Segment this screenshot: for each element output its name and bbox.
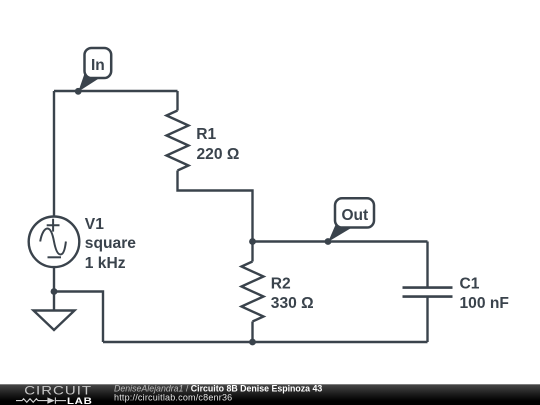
svg-text:220 Ω: 220 Ω bbox=[197, 146, 240, 163]
svg-text:square: square bbox=[85, 235, 136, 252]
junction dot ground node bbox=[51, 288, 58, 295]
junction dot mid node (R1/R2/Out rail) bbox=[249, 238, 256, 245]
node Out junction dot bbox=[325, 238, 332, 245]
node Out flag bbox=[328, 198, 374, 241]
CircuitLab logo diode bbox=[47, 397, 54, 403]
wire R1 top lead bbox=[176, 91, 178, 111]
wire C1 bottom lead bbox=[426, 297, 428, 342]
junction dot R2 bottom bbox=[249, 339, 256, 346]
wire R2 top lead bbox=[251, 242, 253, 262]
node In junction dot bbox=[75, 88, 82, 95]
svg-text:100 nF: 100 nF bbox=[460, 295, 509, 312]
svg-text:http://circuitlab.com/c8enr36: http://circuitlab.com/c8enr36 bbox=[114, 392, 232, 402]
svg-text:1 kHz: 1 kHz bbox=[85, 255, 126, 272]
svg-text:R2: R2 bbox=[271, 275, 291, 292]
wire ground node to bottom rail bbox=[54, 292, 103, 343]
node In flag bbox=[78, 48, 111, 92]
wire left rail V1 top bbox=[53, 91, 55, 217]
svg-text:In: In bbox=[91, 57, 105, 74]
label R2 330 ohm bbox=[271, 275, 314, 312]
wire C1 top lead bbox=[426, 242, 428, 288]
svg-text:C1: C1 bbox=[460, 275, 480, 292]
ground bbox=[34, 311, 75, 331]
label V1 square 1 kHz bbox=[85, 216, 136, 272]
svg-text:CIRCUIT: CIRCUIT bbox=[24, 384, 92, 397]
svg-text:Out: Out bbox=[341, 207, 368, 224]
resistor R2 bbox=[242, 262, 264, 322]
svg-text:R1: R1 bbox=[196, 126, 216, 143]
capacitor C1 bbox=[403, 288, 453, 297]
wire bottom rail bbox=[103, 341, 428, 343]
svg-text:330 Ω: 330 Ω bbox=[271, 295, 314, 312]
wire top horizontal from V1 to R1 bbox=[54, 90, 178, 92]
label R1 220 ohm bbox=[196, 126, 239, 163]
wire out rail to C1 bbox=[253, 240, 428, 242]
label C1 100 nF bbox=[460, 275, 509, 312]
svg-text:LAB: LAB bbox=[67, 397, 93, 405]
wire V1 bottom to ground node bbox=[53, 267, 55, 292]
wire ground stem bbox=[53, 292, 55, 311]
voltage source V1 bbox=[29, 217, 80, 268]
CircuitLab logo waveform (resistor zigzag) bbox=[16, 397, 66, 403]
wire R1 bottom to mid node bbox=[178, 171, 253, 242]
svg-text:V1: V1 bbox=[85, 216, 104, 233]
resistor R1 bbox=[167, 111, 189, 171]
wire R2 bottom lead bbox=[251, 322, 253, 343]
